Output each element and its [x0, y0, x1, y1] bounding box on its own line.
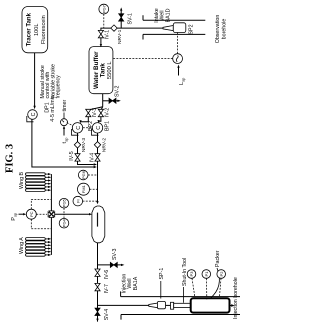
Wing B coil bundle	[26, 173, 46, 192]
svg-text:5500 L: 5500 L	[107, 61, 113, 80]
submersible pump SP2 body	[173, 23, 186, 33]
svg-text:BA1A: BA1A	[133, 276, 139, 290]
svg-text:Injection borehole: Injection borehole	[233, 277, 239, 319]
pipe: branch split to IV-3 / IV-2	[81, 107, 103, 122]
svg-text:Wing B: Wing B	[19, 171, 25, 189]
svg-text:borehole: borehole	[222, 19, 228, 40]
submersible pump SP2 nozzle	[163, 26, 173, 31]
pump BP1	[92, 123, 102, 133]
svg-text:100L: 100L	[34, 23, 40, 35]
valve IV-5	[75, 154, 80, 161]
svg-text:SV-4: SV-4	[104, 309, 110, 321]
pressure sensor P1	[202, 270, 211, 279]
vent branch SV-1	[120, 10, 122, 28]
svg-text:SV-1: SV-1	[128, 13, 134, 25]
svg-text:P2: P2	[219, 271, 224, 277]
svg-text:FM1: FM1	[81, 184, 86, 193]
observation borehole casing	[143, 33, 205, 35]
svg-text:P1: P1	[204, 271, 209, 277]
svg-text:SP2: SP2	[189, 24, 195, 34]
svg-text:IV-4: IV-4	[90, 153, 96, 162]
svg-text:NRV-1: NRV-1	[117, 29, 123, 44]
svg-text:IV-3: IV-3	[92, 108, 98, 117]
control line: level controller to tank	[113, 58, 173, 60]
main line: vessel outlet to SV-4	[97, 243, 99, 322]
svg-text:SV-2: SV-2	[115, 85, 121, 97]
check valve NRV-3	[74, 142, 80, 148]
svg-text:IV-7: IV-7	[104, 284, 110, 293]
coupling below SP-1	[166, 304, 171, 306]
injection borehole casing	[121, 296, 240, 298]
control line: PC to bus left of PCV	[31, 219, 51, 229]
pipe: tracer tank to dosing pump DP1	[34, 53, 36, 106]
valve SV-4	[95, 312, 100, 316]
valve IV-3	[86, 109, 91, 116]
svg-text:Wing A: Wing A	[19, 237, 25, 254]
svg-text:PG7: PG7	[101, 4, 106, 13]
svg-text:PG5: PG5	[62, 198, 67, 207]
Wing A coil bundle	[26, 238, 46, 257]
flow meter FM1	[78, 183, 90, 195]
svg-text:SV-3: SV-3	[112, 248, 118, 260]
valve IV-2	[98, 109, 103, 116]
injection well string: junction to borehole	[98, 304, 149, 306]
svg-text:C: C	[76, 126, 82, 130]
svg-text:BP1: BP1	[105, 121, 111, 131]
drain branch SV-3	[98, 264, 122, 266]
svg-text:IV-2: IV-2	[104, 108, 110, 117]
dosing pump DP1	[28, 110, 38, 120]
svg-text:Packer: Packer	[215, 250, 221, 267]
svg-text:PG4: PG4	[62, 218, 67, 227]
pressure controller PC	[26, 209, 36, 219]
pump SP-1 nozzle	[149, 303, 158, 308]
svg-text:PG6: PG6	[81, 170, 86, 179]
svg-text:frequency: frequency	[56, 75, 62, 99]
svg-text:sp: sp	[63, 137, 68, 142]
Wing B fan connectors	[45, 174, 48, 190]
svg-text:Shut-In Tool: Shut-In Tool	[182, 258, 188, 286]
pump SP-1 body	[157, 301, 165, 308]
level controller Lsp	[173, 54, 183, 64]
valve IV-7	[95, 283, 100, 290]
control line: SP2 to level controller	[177, 33, 179, 54]
svg-text:sp: sp	[181, 77, 186, 82]
svg-text:FIG. 3: FIG. 3	[5, 144, 16, 173]
control line: timer to pumps BP2/BP1	[67, 123, 74, 127]
pump BP2	[72, 123, 82, 133]
svg-text:Tracer Tank: Tracer Tank	[27, 12, 33, 46]
pipe: tank outlet to pump branches	[102, 94, 104, 107]
svg-text:C: C	[31, 112, 37, 116]
pressure gauge PG6	[78, 170, 88, 180]
flow indicator FI	[73, 196, 83, 206]
damper vessel	[92, 206, 105, 243]
control valve PCV (X)	[48, 211, 55, 218]
svg-text:Tank: Tank	[99, 63, 106, 78]
timer	[61, 119, 68, 126]
riser: observation borehole to tank	[101, 28, 163, 45]
tracer tank	[22, 7, 48, 53]
check valve NRV-1	[111, 25, 117, 31]
packer	[191, 298, 230, 312]
pipe: PCV down to vessel	[55, 213, 90, 215]
pipe: BP2 outlet branch (upper)	[78, 133, 94, 165]
valve IV-4	[95, 154, 100, 161]
tracer line: DP1 down to main line	[32, 119, 94, 167]
svg-text:IV-5: IV-5	[69, 151, 75, 160]
svg-text:SP-1: SP-1	[159, 268, 165, 280]
valve IV-6	[95, 269, 100, 276]
svg-text:Observation: Observation	[215, 15, 221, 44]
valve SV-2 (drain, solenoid)	[103, 100, 118, 102]
control line: PC to bus right of PCV	[31, 200, 51, 210]
check valve NRV-2	[94, 142, 100, 148]
svg-text:C: C	[96, 126, 102, 130]
svg-text:FI: FI	[75, 199, 80, 203]
svg-text:BA1D: BA1D	[165, 8, 171, 22]
svg-text:NRV-3: NRV-3	[81, 138, 87, 153]
Wing A fan connectors	[45, 239, 48, 255]
svg-text:sp: sp	[13, 212, 18, 217]
pressure gauge PG5	[59, 198, 69, 208]
pressure sensor P2	[217, 270, 226, 279]
pressure gauge PG7	[99, 4, 109, 14]
svg-text:Fluorescein: Fluorescein	[41, 15, 47, 44]
svg-text:PC: PC	[29, 211, 34, 217]
svg-text:IV-1: IV-1	[105, 30, 111, 39]
valve IV-1	[98, 30, 103, 37]
svg-text:P3: P3	[189, 271, 194, 277]
shut-in tool tube	[174, 303, 191, 307]
pressure sensor P3	[187, 270, 196, 279]
svg-text:timer: timer	[62, 99, 68, 111]
main line: BP1 to vessel	[97, 133, 99, 203]
pressure gauge PG4	[59, 218, 69, 228]
vessel dip tube	[97, 213, 99, 227]
svg-text:NRV-2: NRV-2	[101, 138, 107, 153]
packer outlet arrow	[230, 305, 232, 307]
control line: PC to PCV	[36, 213, 47, 215]
svg-text:IV-6: IV-6	[104, 270, 110, 279]
collector bus between wings	[50, 174, 52, 255]
water buffer tank	[89, 47, 113, 94]
